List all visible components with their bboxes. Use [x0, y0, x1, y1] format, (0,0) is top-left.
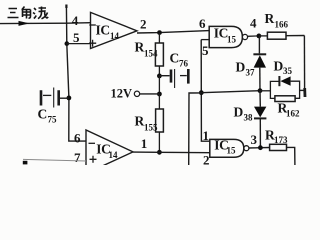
stub blob at pin7 wire start [23, 161, 28, 165]
node label 三角波 (triangle-wave input text) [8, 7, 49, 19]
wire: NAND2 output [249, 147, 270, 150]
svg-text:3: 3 [251, 132, 258, 147]
arrowhead on input wire [19, 21, 30, 26]
svg-text:1: 1 [203, 128, 210, 143]
junction: NAND2 output / D38 [258, 145, 263, 150]
op-amp U1 (IC14 top) [89, 12, 137, 48]
wire: node B stub to D35/R162 loop [260, 90, 270, 92]
wire: corner from pin5 bus down to bottom edge [189, 93, 202, 165]
wire: node A to R166 [259, 35, 268, 37]
svg-text:14: 14 [110, 31, 120, 41]
svg-text:R: R [135, 114, 145, 129]
svg-text:75: 75 [48, 115, 58, 125]
svg-text:155: 155 [144, 123, 158, 133]
resistor R166 [267, 32, 286, 39]
svg-text:7: 7 [74, 150, 81, 165]
svg-text:162: 162 [286, 109, 300, 119]
junction: output node / R154 [157, 30, 162, 35]
wire: R154 bottom lead [158, 66, 160, 76]
svg-text:6: 6 [74, 131, 81, 146]
wire: op-amp1 output to NAND1 pin6 [137, 31, 209, 33]
svg-text:12V: 12V [111, 86, 133, 100]
NAND gate IC15 (top) [209, 26, 247, 48]
wire: NAND1 output to node A [248, 35, 259, 37]
svg-text:D: D [236, 60, 246, 75]
wire: op-amp2 output to NAND2 pin2 [133, 151, 210, 154]
junction: chain / C76 [157, 74, 162, 79]
resistor R154 [155, 43, 163, 66]
op-amp U2 (IC14 bottom) [86, 130, 133, 174]
junction: R155 / op-amp2 output [157, 150, 162, 155]
diode D38 [234, 91, 267, 148]
wire: pin5 vertical bus [201, 40, 210, 142]
svg-text:38: 38 [244, 113, 254, 123]
svg-text:76: 76 [179, 59, 189, 69]
wire: R155 bottom lead to op-amp2 output wire [158, 132, 160, 152]
diode D37 [236, 36, 267, 91]
junction: line A / op-amp1 pin5 [65, 41, 70, 46]
junction: line A / C75 [67, 96, 72, 101]
wire: vertical line A (input bus down left side) [66, 5, 86, 142]
rail end blob [303, 88, 306, 97]
svg-text:14: 14 [109, 150, 119, 160]
junction: pin5 bus / node B cross wire [199, 90, 204, 95]
resistor R173 [270, 144, 287, 150]
wire: triangle-wave input to op-amp pin4 [0, 22, 91, 25]
wire: right rail down [303, 36, 305, 90]
svg-text:166: 166 [275, 19, 289, 29]
parallel loop frame (D35 over R162) [270, 81, 299, 98]
svg-text:4: 4 [250, 16, 257, 31]
wire: loop right stub to rail [300, 89, 306, 91]
svg-text:2: 2 [203, 153, 210, 166]
junction: node A [257, 34, 262, 39]
NAND gate IC15 (bottom) [210, 137, 249, 157]
resistor R155 [156, 109, 164, 132]
capacitor C76 [159, 51, 188, 89]
svg-text:5: 5 [73, 30, 80, 45]
wire: R166 to right rail [286, 35, 304, 37]
wire: R173 to bottom edge [287, 147, 295, 165]
svg-text:D: D [274, 59, 284, 74]
svg-text:15: 15 [227, 146, 237, 156]
svg-text:IC: IC [96, 23, 110, 38]
supply terminal 12V [111, 86, 160, 100]
wire: R154 top lead [158, 33, 160, 43]
svg-text:37: 37 [246, 68, 256, 78]
diode D35 [274, 59, 293, 87]
svg-text:D: D [234, 105, 244, 120]
svg-text:2: 2 [140, 17, 147, 32]
svg-text:35: 35 [283, 66, 293, 76]
svg-text:173: 173 [274, 135, 288, 145]
svg-text:154: 154 [144, 49, 158, 59]
svg-text:IC: IC [214, 26, 228, 41]
svg-text:C: C [170, 51, 180, 66]
svg-text:C: C [38, 107, 48, 122]
wire: faint pin7 lead [23, 159, 86, 161]
wire: chain down to R155 [158, 94, 160, 109]
capacitor C75 [38, 88, 69, 125]
wire: chain between C76 tap and 12V tap [158, 76, 160, 94]
wire: NAND1 pin5 stub [201, 39, 209, 41]
svg-text:1: 1 [141, 136, 148, 151]
junction: node B [258, 88, 263, 93]
svg-text:5: 5 [202, 43, 209, 58]
svg-text:4: 4 [72, 13, 79, 28]
wire: vertical line A top tip [65, 5, 67, 9]
wire: node B horizontal (pin5 bus to diode column) [201, 91, 260, 93]
junction: chain / 12V feed [157, 92, 162, 97]
svg-text:R: R [265, 11, 275, 26]
svg-text:6: 6 [199, 16, 206, 31]
svg-text:R: R [135, 40, 145, 55]
svg-text:15: 15 [227, 35, 237, 45]
wire: op-amp1 pin5 [67, 43, 91, 45]
resistor R162 [275, 96, 300, 119]
